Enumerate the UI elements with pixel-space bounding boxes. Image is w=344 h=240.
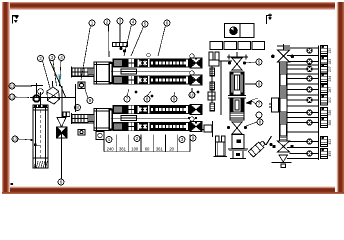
svg-text:4: 4 — [60, 55, 63, 60]
svg-text:12: 12 — [9, 94, 15, 99]
svg-text:267: 267 — [328, 87, 332, 93]
svg-text:20: 20 — [169, 147, 174, 152]
svg-text:423: 423 — [328, 139, 332, 145]
svg-text:2: 2 — [106, 19, 109, 24]
svg-text:7: 7 — [258, 101, 261, 106]
svg-text:6: 6 — [166, 20, 169, 25]
svg-text:100: 100 — [131, 147, 139, 152]
svg-text:8: 8 — [76, 105, 79, 110]
svg-text:9: 9 — [173, 96, 176, 101]
svg-text:3: 3 — [119, 18, 122, 23]
svg-text:207: 207 — [328, 66, 332, 72]
svg-text:9: 9 — [192, 135, 195, 140]
svg-text:8: 8 — [146, 96, 149, 101]
svg-text:10: 10 — [189, 92, 195, 97]
svg-text:9: 9 — [89, 98, 92, 103]
svg-text:361: 361 — [156, 147, 164, 152]
svg-text:361: 361 — [119, 147, 127, 152]
svg-text:300: 300 — [328, 97, 332, 103]
svg-text:5: 5 — [144, 21, 147, 26]
svg-text:6: 6 — [60, 179, 63, 184]
svg-text:7: 7 — [126, 96, 129, 101]
svg-text:2: 2 — [39, 56, 42, 61]
svg-text:4: 4 — [132, 19, 135, 24]
svg-text:234: 234 — [328, 76, 332, 82]
svg-text:240: 240 — [107, 147, 115, 152]
svg-text:2: 2 — [136, 136, 139, 141]
svg-text:11: 11 — [10, 83, 15, 88]
svg-text:150: 150 — [328, 48, 332, 54]
svg-text:1: 1 — [108, 137, 111, 142]
svg-text:60: 60 — [145, 147, 150, 152]
svg-text:13: 13 — [12, 136, 18, 141]
svg-text:1: 1 — [91, 20, 94, 25]
svg-text:336: 336 — [328, 110, 332, 116]
svg-text:459: 459 — [328, 151, 332, 157]
svg-text:8: 8 — [259, 119, 262, 124]
svg-text:3: 3 — [181, 137, 184, 142]
svg-text:5: 5 — [258, 59, 261, 64]
svg-text:183: 183 — [328, 59, 332, 65]
svg-text:6: 6 — [258, 81, 261, 86]
svg-text:366: 366 — [328, 120, 332, 126]
svg-text:3: 3 — [51, 55, 54, 60]
